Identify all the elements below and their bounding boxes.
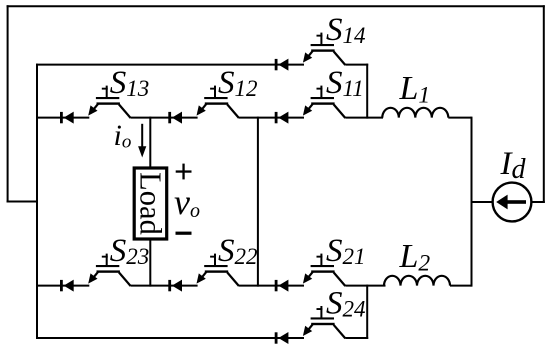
wire riser top xyxy=(366,64,368,119)
svg-text:vo: vo xyxy=(174,182,200,222)
wire S14 row xyxy=(36,64,368,66)
inductor L1 xyxy=(382,108,448,118)
wire load bottom xyxy=(149,239,151,287)
transistor switch S14 (IGBT with series diode) xyxy=(275,33,346,71)
wire row1 segments xyxy=(36,117,383,119)
svg-text:S14: S14 xyxy=(326,12,366,48)
svg-text:io: io xyxy=(114,119,132,153)
wire bottom edge S24 row xyxy=(36,337,368,339)
svg-text:S21: S21 xyxy=(326,233,366,269)
svg-text:L2: L2 xyxy=(399,238,431,277)
svg-text:S24: S24 xyxy=(326,285,366,321)
wire outer right edge xyxy=(543,5,545,203)
wire outer top edge xyxy=(7,5,545,7)
transistor switch S23 (IGBT with series diode) xyxy=(60,254,131,292)
wire outer left edge xyxy=(7,5,9,202)
minus sign xyxy=(176,232,192,235)
wire source left xyxy=(471,201,493,203)
svg-text:S12: S12 xyxy=(218,65,258,101)
svg-text:S11: S11 xyxy=(326,65,364,101)
transistor switch S12 (IGBT with series diode) xyxy=(168,86,239,124)
wire L1 to right corner xyxy=(448,117,471,119)
wire riser bottom xyxy=(366,285,368,339)
io arrow xyxy=(141,124,143,148)
wire source right xyxy=(531,201,544,203)
svg-text:L1: L1 xyxy=(399,70,431,109)
transistor switch S21 (IGBT with series diode) xyxy=(275,254,346,292)
plus sign xyxy=(176,170,192,172)
transistor switch S22 (IGBT with series diode) xyxy=(168,254,239,292)
svg-text:S13: S13 xyxy=(110,65,150,101)
current source arrow xyxy=(496,195,507,210)
transistor switch S24 (IGBT with series diode) xyxy=(275,306,346,344)
load box xyxy=(134,168,167,239)
wire middle vertical xyxy=(257,117,259,287)
wire load top xyxy=(149,117,151,168)
svg-text:Id: Id xyxy=(500,146,527,185)
svg-text:S22: S22 xyxy=(218,233,258,269)
svg-text:Load: Load xyxy=(134,172,168,235)
wire right inner vertical xyxy=(471,117,473,287)
current source Id circle xyxy=(493,183,532,222)
transistor switch S11 (IGBT with series diode) xyxy=(275,86,346,124)
wire L2 to right corner xyxy=(450,285,472,287)
wire outer left stub xyxy=(7,201,38,203)
transistor switch S13 (IGBT with series diode) xyxy=(60,86,131,124)
inductor L2 xyxy=(384,276,450,286)
wire inner left vertical xyxy=(36,64,38,339)
wire row2 segments xyxy=(36,285,386,287)
